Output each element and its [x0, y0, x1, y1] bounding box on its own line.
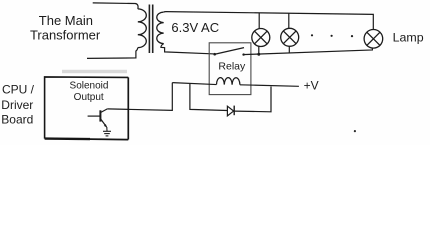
transformer T1 primary bottom lead wire — [87, 48, 138, 59]
lamp L2 bottom stub wire — [288, 46, 290, 53]
label: The Main Transformer — [30, 13, 101, 42]
svg-text:CPU /: CPU / — [2, 82, 35, 96]
transformer T1 core — [149, 5, 152, 54]
lamp L1 top stub wire — [258, 13, 260, 29]
relay switch contact (left pole) — [213, 53, 216, 56]
diode D1 — [227, 106, 234, 116]
transformer T1 primary top lead wire — [93, 3, 138, 9]
svg-text:Board: Board — [1, 112, 33, 126]
lamp L2 top stub wire — [288, 13, 290, 28]
wire: secondary bottom lead — [161, 44, 215, 54]
svg-text:Relay: Relay — [218, 61, 246, 73]
scan smudge above box — [62, 70, 127, 73]
transistor Q1 base lead — [88, 115, 101, 117]
transistor Q1 emitter with arrow — [100, 119, 106, 127]
svg-text:Solenoid: Solenoid — [70, 81, 109, 92]
transformer T1 primary winding — [138, 9, 147, 48]
svg-text:Driver: Driver — [1, 98, 33, 112]
wire: transistor collector to coil branch — [107, 83, 172, 111]
svg-text:+V: +V — [304, 79, 319, 93]
relay coil left lead wire — [172, 83, 216, 85]
label: CPU / Driver Board — [1, 82, 34, 126]
lamp L2 — [281, 28, 299, 46]
scan speck: dot lower right — [354, 130, 356, 132]
svg-text:6.3V AC: 6.3V AC — [171, 20, 219, 35]
transistor Q1 base bar — [99, 110, 101, 121]
relay switch blade — [215, 48, 244, 55]
svg-text:Lamp: Lamp — [393, 30, 424, 44]
CPU / Driver board box — [45, 77, 129, 140]
wire: relay coil right lead to +V — [240, 85, 299, 87]
wire: diode cathode to +V — [234, 87, 271, 112]
ground — [103, 127, 111, 136]
transistor Q1 collector — [100, 109, 107, 113]
label: Solenoid Output — [70, 81, 109, 103]
ellipsis dots between lamps — [311, 34, 353, 37]
wire: secondary top lead to lamp top bus — [164, 12, 374, 30]
svg-text:The Main: The Main — [39, 13, 93, 28]
svg-text:Transformer: Transformer — [30, 28, 101, 43]
transformer T1 secondary winding — [157, 12, 164, 43]
lamp L1 bottom stub wire — [258, 46, 260, 54]
wire: switch output to lamp bottom bus — [243, 48, 373, 55]
wire: diode anode branch — [190, 83, 228, 110]
lamp L1 — [252, 29, 270, 47]
relay switch contact (right throw) — [242, 53, 244, 55]
lamp L3 — [364, 30, 383, 49]
svg-text:Output: Output — [74, 92, 104, 103]
relay coil — [217, 78, 240, 85]
relay box — [209, 43, 251, 95]
junction: lamp L1 to bottom bus — [257, 53, 260, 56]
